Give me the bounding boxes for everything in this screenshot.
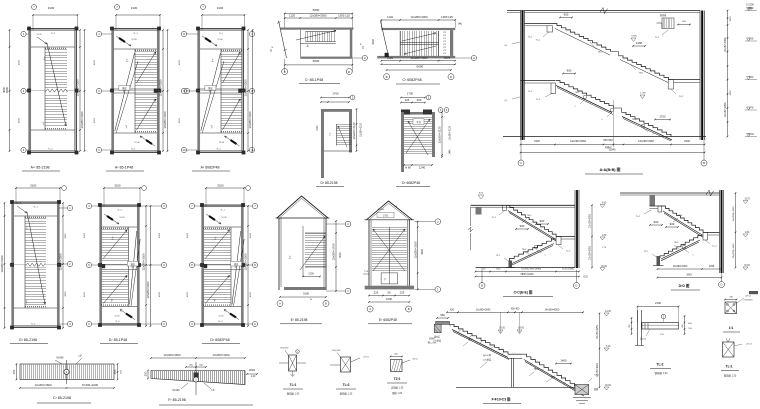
svg-text:TL-2: TL-2 <box>536 99 541 101</box>
svg-text:15x150=2250: 15x150=2250 <box>597 324 599 339</box>
svg-text:4600: 4600 <box>94 59 96 65</box>
section C-C lower flight annotations <box>516 228 528 230</box>
svg-text:4600: 4600 <box>159 291 161 297</box>
svg-text:1050: 1050 <box>730 16 732 22</box>
svg-text:900: 900 <box>564 13 569 17</box>
svg-text:12x280=3360: 12x280=3360 <box>76 79 80 96</box>
plan Ga flight arrows <box>402 33 436 41</box>
stair plan C (row1 p3) grid circles left <box>181 31 186 36</box>
svg-text:175: 175 <box>443 44 446 46</box>
svg-text:D: D <box>576 284 578 288</box>
svg-text:3100: 3100 <box>303 292 309 296</box>
svg-text:360: 360 <box>440 313 445 317</box>
svg-text:12x280=3360: 12x280=3360 <box>146 281 150 298</box>
plan Da right dim <box>356 109 358 151</box>
svg-text:2∅14: 2∅14 <box>363 356 369 359</box>
svg-text:B: B <box>703 161 705 165</box>
svg-text:下: 下 <box>125 125 128 129</box>
svg-text:N1400: N1400 <box>378 209 385 211</box>
svg-text:14x300=4200: 14x300=4200 <box>545 308 560 311</box>
svg-text:14x300=4200: 14x300=4200 <box>212 353 229 357</box>
section D-D left wall stub <box>650 195 656 206</box>
stair plan H (row2 p2) flight arrows in treads <box>103 230 127 259</box>
svg-text:TL-1: TL-1 <box>655 37 660 39</box>
svg-text:12x280=3360: 12x280=3360 <box>309 14 326 18</box>
svg-text:12x260=3120: 12x260=3120 <box>361 122 363 137</box>
svg-text:1120 (1395): 1120 (1395) <box>562 269 574 271</box>
section A-A right wall <box>700 11 705 141</box>
detail TL-2m leaders <box>330 364 341 366</box>
beam detail G center circle <box>66 360 68 384</box>
detail TL-1r rect <box>723 342 735 357</box>
svg-text:E› 85-2198: E› 85-2198 <box>291 318 308 322</box>
stair plan I (row2 p3) corridor diagonals <box>232 231 241 305</box>
svg-text:13x158=2050: 13x158=2050 <box>590 245 592 260</box>
svg-text:TB-1: TB-1 <box>639 73 645 75</box>
section F upper flight <box>450 324 509 354</box>
svg-text:TB-5: TB-5 <box>678 215 684 217</box>
section A-A upper landing beam leader <box>543 32 549 37</box>
svg-text:225: 225 <box>400 291 405 295</box>
detail TL-2m rect <box>341 357 351 372</box>
stair plan C (row1 p3) top dimension <box>202 14 245 16</box>
section A-A bottom dim row 2 <box>521 152 705 154</box>
svg-text:12x280=3360: 12x280=3360 <box>59 253 63 270</box>
svg-text:12.45: 12.45 <box>114 316 120 318</box>
section D-D lower flight dim 900 <box>650 224 662 226</box>
svg-text:1440: 1440 <box>450 149 452 155</box>
svg-text:TL-1: TL-1 <box>636 216 641 218</box>
stair plan H (row2 p2) outline <box>100 205 139 207</box>
plan Ha diagonals <box>406 119 430 153</box>
svg-text:3100: 3100 <box>217 6 224 10</box>
plan G right dim strings <box>62 203 64 328</box>
plan B right dim strings <box>162 30 164 151</box>
svg-text:D› 6082P48: D› 6082P48 <box>402 181 420 185</box>
detail TL-2 left post <box>637 310 639 346</box>
plan I right dim strings <box>247 206 249 326</box>
section C-C left wall stub <box>476 207 482 214</box>
svg-text:(2S): (2S) <box>583 276 588 279</box>
svg-text:4600: 4600 <box>179 59 181 65</box>
svg-text:3900: 3900 <box>421 249 424 255</box>
svg-text:175: 175 <box>443 53 446 55</box>
svg-text:350: 350 <box>113 369 117 374</box>
svg-text:3100: 3100 <box>114 184 121 188</box>
svg-text:上: 上 <box>111 236 114 240</box>
svg-text:TZ›1: TZ›1 <box>394 377 401 381</box>
plan Ha right dim <box>441 112 443 157</box>
stair plan I (row2 p3) corner columns <box>200 203 204 207</box>
plan Da left wall <box>321 109 324 178</box>
plan Ha top wall with dark blocks <box>401 112 435 115</box>
section A-A top right landing detail <box>662 18 674 29</box>
svg-text:TZ-1: TZ-1 <box>644 251 649 253</box>
svg-text:350: 350 <box>12 369 16 374</box>
section C-C lower flight <box>510 239 557 261</box>
svg-text:钢筋图 1:20: 钢筋图 1:20 <box>724 374 737 378</box>
section F bottom right footing <box>575 385 589 395</box>
stair plan B (row1 p2) nosing dash rows <box>135 50 137 51</box>
svg-text:1700: 1700 <box>407 92 414 96</box>
beam detail G side dims <box>16 364 18 380</box>
svg-text:7.20: 7.20 <box>606 346 611 348</box>
stair plan H (row2 p2) corner columns <box>98 203 102 207</box>
svg-text:12x280=3360: 12x280=3360 <box>410 56 427 60</box>
section A-A bottom dim row 1 <box>521 144 705 146</box>
stair plan B (row1 p2) mid landing lines <box>114 88 157 90</box>
stair plan B (row1 p2) landing thick arrows <box>116 36 131 46</box>
beam detail G bottom dimension <box>20 387 114 389</box>
svg-text:4600: 4600 <box>19 59 21 65</box>
svg-text:4∅14: 4∅14 <box>745 295 751 298</box>
svg-text:1400: 1400 <box>636 41 643 45</box>
stair plan B (row1 p2) treads <box>135 51 157 53</box>
svg-text:平台: 平台 <box>416 120 421 124</box>
svg-text:1395 125: 1395 125 <box>338 14 350 18</box>
svg-text:4∅12: 4∅12 <box>412 358 418 361</box>
svg-text:6600: 6600 <box>313 8 320 12</box>
section F footing leader <box>588 378 592 382</box>
plan Ga left cut line and column <box>380 21 388 57</box>
svg-text:钢筋 1:20: 钢筋 1:20 <box>392 391 403 395</box>
stair plan A (row1 p1) grid circles left <box>21 31 26 36</box>
svg-text:∅6@200: ∅6@200 <box>332 349 341 352</box>
svg-text:上: 上 <box>26 225 29 229</box>
svg-text:13x158=2050: 13x158=2050 <box>590 213 592 228</box>
svg-text:H: H <box>364 56 366 60</box>
stair plan I (row2 p3) grid circles left <box>189 203 194 208</box>
stair plan B (row1 p2) landing edges <box>114 48 157 50</box>
svg-text:12x280=3360: 12x280=3360 <box>80 111 84 128</box>
svg-text:3000: 3000 <box>339 252 342 258</box>
stair plan B (row1 p2) flight arrows in treads <box>137 52 156 83</box>
stair plan A (row1 p1) grid centerline <box>26 90 80 92</box>
svg-text:下: 下 <box>110 299 113 303</box>
svg-text:B: B <box>386 75 388 79</box>
svg-text:TB-6: TB-6 <box>674 242 680 244</box>
stair plan B (row1 p2) grid centerline <box>109 90 162 92</box>
section A-A grid circles <box>520 140 522 160</box>
svg-text:TB-3: TB-3 <box>527 215 533 217</box>
svg-text:树图: 树图 <box>748 6 753 10</box>
stair plan I (row2 p3) mid landing label box <box>231 261 242 266</box>
stair plan A (row1 p1) nosing dash rows <box>45 48 47 49</box>
svg-text:TL›2: TL›2 <box>656 363 663 367</box>
plan H right dim strings <box>145 206 147 326</box>
plan Ca flight arrow <box>296 31 336 41</box>
beam detail F top dimension <box>151 357 245 359</box>
stair plan B (row1 p2) mid landing label box <box>119 86 130 91</box>
plan Ca section cut line left <box>279 21 287 58</box>
plan Ha small white box label <box>413 119 424 125</box>
stair plan I (row2 p3) grid centerline <box>199 264 246 266</box>
svg-text:600 600: 600 600 <box>603 138 613 142</box>
section A-A upper flight leader texts <box>590 42 596 49</box>
plan Ga bottom wall <box>377 56 455 59</box>
attic plan F roof <box>367 201 413 220</box>
svg-text:∅6@200: ∅6@200 <box>280 347 289 350</box>
svg-text:4600: 4600 <box>372 39 375 45</box>
stair plan C (row1 p3) nosing dash rows <box>221 50 223 51</box>
svg-text:1120: 1120 <box>387 56 393 60</box>
svg-text:1.80: 1.80 <box>602 235 607 237</box>
svg-text:F› 85-2198: F› 85-2198 <box>168 398 186 402</box>
svg-text:±0.00: ±0.00 <box>744 265 750 267</box>
svg-text:下: 下 <box>210 125 213 129</box>
svg-text:TB-2: TB-2 <box>575 92 581 94</box>
detail TL-1r leader <box>734 344 742 346</box>
stair plan G (row2 p1) flight arrow <box>27 212 45 304</box>
svg-text:4600: 4600 <box>65 291 67 297</box>
detail TL-2 circled number <box>661 314 666 319</box>
svg-text:12x(360)=1950: 12x(360)=1950 <box>733 206 735 222</box>
svg-text:175: 175 <box>443 32 446 34</box>
svg-text:C› 85-2198: C› 85-2198 <box>53 396 71 400</box>
svg-text:12x280=3360: 12x280=3360 <box>159 79 163 96</box>
svg-text:400 400: 400 400 <box>511 307 520 310</box>
plan Ha grid circles right top <box>438 108 443 113</box>
svg-text:175: 175 <box>443 35 446 37</box>
svg-text:A: A <box>369 307 371 311</box>
svg-text:12x260=3120: 12x260=3120 <box>450 125 452 140</box>
svg-text:C› 6082P48: C› 6082P48 <box>402 78 421 82</box>
svg-text:TZ-1: TZ-1 <box>496 255 501 257</box>
svg-text:(4k): (4k) <box>458 24 462 26</box>
svg-text:下: 下 <box>213 299 216 303</box>
svg-text:125: 125 <box>405 98 410 102</box>
plan Da treads <box>337 124 353 126</box>
stair plan C (row1 p3) landing thick arrows <box>202 36 217 46</box>
svg-text:6800 (9100): 6800 (9100) <box>521 273 534 276</box>
svg-text:上: 上 <box>211 58 214 62</box>
attic plan E flight arrow <box>300 236 325 270</box>
svg-text:12x280=3360 (3080): 12x280=3360 (3080) <box>521 269 542 271</box>
section A-A upper flight mid plateau <box>610 52 618 56</box>
svg-text:B: B <box>284 70 286 74</box>
svg-text:4600: 4600 <box>187 291 189 297</box>
svg-text:900: 900 <box>654 220 659 224</box>
svg-text:4600: 4600 <box>159 232 161 238</box>
plan A left dim line <box>9 30 11 151</box>
attic plan F inner bottom details <box>381 273 398 284</box>
svg-text:4600: 4600 <box>250 232 252 238</box>
svg-text:13x(150)=1950: 13x(150)=1950 <box>733 243 735 259</box>
stair plan G (row2 p1) grid circles right <box>67 205 72 210</box>
svg-text:900: 900 <box>540 219 545 223</box>
plan C far right grid circles <box>249 31 254 36</box>
stair plan G (row2 p1) outline <box>12 202 59 204</box>
plan Ga right wall <box>450 30 453 56</box>
plan Ha treads <box>404 117 432 119</box>
detail TZ-1 square <box>391 360 403 372</box>
svg-text:TL-1: TL-1 <box>528 37 533 39</box>
section A-A break mark <box>600 8 608 14</box>
svg-text:2100: 2100 <box>308 273 314 276</box>
svg-text:12x280=3360: 12x280=3360 <box>0 255 4 272</box>
plan Ca treads <box>305 32 307 42</box>
stair plan C (row1 p3) mid landing lines <box>200 88 242 90</box>
svg-text:C› 85-1P48: C› 85-1P48 <box>305 78 323 82</box>
svg-text:N1400: N1400 <box>172 389 180 392</box>
svg-text:∅6@200: ∅6@200 <box>744 299 754 302</box>
svg-text:±0.00: ±0.00 <box>601 266 607 268</box>
detail 1-1 square <box>725 302 737 314</box>
svg-text:3100: 3100 <box>30 184 37 188</box>
svg-text:上: 上 <box>126 58 129 62</box>
stair plan H (row2 p2) landing thick arrows <box>104 214 119 224</box>
svg-text:12x280=3360: 12x280=3360 <box>413 241 417 258</box>
section D-D right wall <box>720 190 724 273</box>
stair plan I (row2 p3) flight arrows in treads <box>205 230 229 259</box>
section A-A upper flight soffit <box>555 29 610 56</box>
svg-text:上: 上 <box>329 132 332 136</box>
section C-C lower flight bottom support <box>509 261 513 268</box>
svg-text:900: 900 <box>567 69 572 73</box>
svg-text:TB-8: TB-8 <box>534 369 540 371</box>
section F mid landing <box>508 353 522 355</box>
svg-text:A: A <box>520 161 522 165</box>
section A-A LM mark lower <box>655 119 670 121</box>
svg-text:TL›1: TL›1 <box>290 383 297 387</box>
svg-text:4600: 4600 <box>179 117 181 123</box>
section D-D upper flight <box>662 206 704 232</box>
stair plan H (row2 p2) grid circles right <box>161 203 166 208</box>
stair plan I (row2 p3) outline <box>202 205 243 207</box>
attic plan E body walls <box>278 218 280 290</box>
stair plan A (row1 p1) outline <box>29 29 77 31</box>
section A-A top floor slab <box>507 10 700 12</box>
detail 1-1 dims <box>725 299 737 301</box>
detail TL-2 left small dims <box>631 318 633 334</box>
svg-text:↓: ↓ <box>565 19 566 22</box>
section D-D upper flight dim 900 <box>666 226 678 228</box>
svg-text:1120: 1120 <box>496 269 501 271</box>
svg-text:钢筋图 1:20: 钢筋图 1:20 <box>340 392 353 396</box>
stair plan C (row1 p3) treads <box>221 51 242 53</box>
section C-C upper flight start support <box>503 205 507 210</box>
svg-text:D› 85-2198: D› 85-2198 <box>321 181 338 185</box>
svg-text:A›› 85-2198: A›› 85-2198 <box>31 166 50 170</box>
svg-text:1.80: 1.80 <box>745 232 750 234</box>
svg-text:TB-4: TB-4 <box>522 249 528 251</box>
stair plan A (row1 p1) flight arrow <box>47 43 66 126</box>
svg-text:13x157=2050: 13x157=2050 <box>724 102 727 117</box>
svg-text:钢筋图 1:20: 钢筋图 1:20 <box>654 371 668 375</box>
attic plan E right dims <box>335 221 337 291</box>
stair plan G (row2 p1) top dimension <box>16 187 60 189</box>
svg-text:下: 下 <box>25 300 28 304</box>
svg-text:TL-1: TL-1 <box>492 217 497 219</box>
svg-text:TL-2: TL-2 <box>566 251 571 253</box>
section A-A lower flight annotations <box>583 95 587 99</box>
svg-text:B: B <box>481 284 483 288</box>
section C-C right mid landing <box>556 236 579 238</box>
svg-text:12x280=3360: 12x280=3360 <box>244 79 248 96</box>
svg-text:3.580: 3.580 <box>631 36 637 38</box>
stair plan I (row2 p3) nosing dash rows <box>203 228 205 229</box>
svg-text:浇筋图 1:20: 浇筋图 1:20 <box>391 386 404 390</box>
svg-text:1.20: 1.20 <box>251 376 256 378</box>
section C-C plumb line mark <box>478 195 484 199</box>
detail TL-1m arrows and marks <box>279 362 289 364</box>
svg-text:175: 175 <box>443 50 446 52</box>
svg-text:13x360=1950: 13x360=1950 <box>673 265 688 268</box>
section F mid landing support column <box>510 358 512 387</box>
svg-text:14.00: 14.00 <box>518 328 524 330</box>
section D-D break mark top <box>706 190 714 196</box>
section D-D bottom dim row2 <box>658 277 722 279</box>
attic plan E roof <box>277 196 328 218</box>
attic plan F bottom wall <box>365 286 414 290</box>
svg-text:1120: 1120 <box>289 14 295 18</box>
plan Ca grid circles <box>282 69 288 75</box>
stair plan H (row2 p2) grid circles left <box>86 203 91 208</box>
svg-text:1400: 1400 <box>560 359 567 363</box>
detail TL-2 below annotations <box>646 329 650 336</box>
svg-text:钢筋图 1:20: 钢筋图 1:20 <box>287 392 300 396</box>
svg-text:1: 1 <box>297 352 298 354</box>
section D-D bottom support <box>657 256 661 266</box>
section F lower flight <box>522 354 583 391</box>
svg-text:2∅12: 2∅12 <box>746 343 752 346</box>
svg-text:TL›1: TL›1 <box>726 365 733 369</box>
plan Ha left wall <box>401 112 404 172</box>
svg-text:E› 6082P48: E› 6082P48 <box>379 318 397 322</box>
svg-text:N1400: N1400 <box>56 357 64 360</box>
section C-C bottom dim row2 <box>476 276 580 278</box>
svg-text:12.45: 12.45 <box>134 142 140 144</box>
stair plan A (row1 p1) mid break zigzag <box>46 88 67 93</box>
svg-text:1050: 1050 <box>730 90 732 96</box>
section A-A lower flight steps <box>556 81 614 108</box>
section D-D top floor <box>620 192 722 194</box>
attic plan F treads <box>372 227 407 229</box>
svg-text:D› 85-1P48: D› 85-1P48 <box>109 338 127 342</box>
stair plan B (row1 p2) top dimension <box>116 14 160 16</box>
section F right dim column <box>599 314 601 388</box>
svg-text:12.45: 12.45 <box>218 316 224 318</box>
section F left support dim <box>437 317 448 319</box>
svg-text:4600: 4600 <box>250 291 252 297</box>
attic plan F bottom dims <box>369 295 409 297</box>
attic plan E treads <box>305 233 326 235</box>
section F rebar tick marks upper <box>458 330 461 333</box>
svg-text:TL-2: TL-2 <box>679 96 684 98</box>
plan Ca inner lines <box>299 30 301 57</box>
section A-A level flags <box>631 38 636 42</box>
stair plan A (row1 p1) corner columns <box>27 27 31 31</box>
svg-text:3100: 3100 <box>48 6 55 10</box>
svg-text:4600: 4600 <box>2 87 6 93</box>
svg-text:TB-2: TB-2 <box>632 119 638 121</box>
svg-text:900: 900 <box>520 224 525 228</box>
section D-D right dim column <box>735 193 737 268</box>
small title block mark right edge <box>749 291 758 294</box>
stair plan H (row2 p2) corridor diagonals <box>130 231 137 305</box>
svg-text:3245: 3245 <box>686 274 692 277</box>
svg-text:3.60: 3.60 <box>602 203 607 205</box>
svg-text:13x300=3600: 13x300=3600 <box>34 383 51 387</box>
svg-text:F›F10›C3 图: F›F10›C3 图 <box>492 397 511 402</box>
svg-text:D›D 图: D›D 图 <box>679 283 690 288</box>
section A-A left wall <box>521 11 525 141</box>
svg-text:13x300=3600: 13x300=3600 <box>163 353 180 357</box>
section A-A top small dim 900 <box>560 17 572 19</box>
svg-text:1700: 1700 <box>659 115 666 119</box>
svg-text:50: 50 <box>387 291 391 295</box>
plan Ha bottom dim <box>404 164 432 166</box>
